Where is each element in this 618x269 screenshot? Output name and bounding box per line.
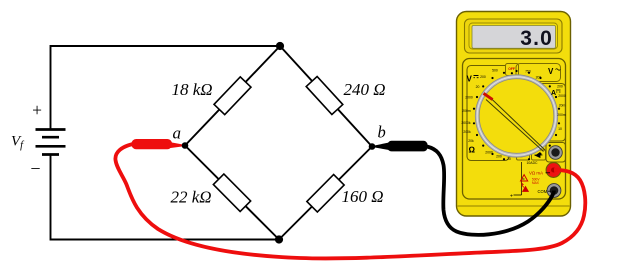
svg-text:2000k: 2000k <box>461 121 471 125</box>
case seam <box>458 205 570 207</box>
svg-text:b: b <box>378 123 386 142</box>
node top junction <box>276 42 284 50</box>
10A jack box <box>546 143 566 163</box>
svg-text:3.0: 3.0 <box>520 27 553 50</box>
svg-text:V: V <box>548 67 554 76</box>
svg-text:200m: 200m <box>557 113 566 117</box>
resistor 22 kOhm <box>213 174 250 211</box>
svg-text:200: 200 <box>496 155 502 159</box>
node b <box>369 143 376 150</box>
svg-text:200: 200 <box>557 85 563 89</box>
wire top: battery to top node <box>51 46 281 130</box>
red probe lead wire <box>115 144 585 258</box>
jack labels <box>510 162 551 200</box>
svg-text:2000: 2000 <box>465 96 473 100</box>
svg-text:2000: 2000 <box>558 94 566 98</box>
svg-text:200k: 200k <box>463 130 471 134</box>
svg-text:COM: COM <box>538 189 548 194</box>
display bezel <box>465 19 563 53</box>
red probe at node a <box>171 142 186 148</box>
black probe lead wire <box>427 147 554 235</box>
wire: top node to node b <box>280 46 372 147</box>
wire: node a to bottom node <box>185 146 279 240</box>
svg-text:20: 20 <box>507 157 511 161</box>
knob slot <box>486 96 545 152</box>
svg-text:160 Ω: 160 Ω <box>342 187 384 206</box>
svg-text:−: − <box>30 159 40 179</box>
svg-text:240 Ω: 240 Ω <box>344 80 386 99</box>
svg-text:200: 200 <box>480 75 486 79</box>
jack 10A <box>549 146 563 160</box>
svg-text:18 kΩ: 18 kΩ <box>172 80 213 99</box>
resistor 18 kOhm <box>214 77 251 115</box>
battery Vf <box>36 130 66 155</box>
svg-text:200: 200 <box>536 76 542 80</box>
resistor 240 Ohm <box>306 76 343 114</box>
svg-text:2000: 2000 <box>485 151 493 155</box>
multimeter body <box>457 12 571 217</box>
svg-text:Ω: Ω <box>469 144 476 154</box>
dial knob <box>477 77 556 156</box>
svg-text:VΩ mA: VΩ mA <box>529 171 543 176</box>
dial tick dots <box>473 70 560 160</box>
svg-text:500: 500 <box>492 69 498 73</box>
black probe at node b <box>372 143 389 151</box>
svg-text:20k: 20k <box>468 139 474 143</box>
jack V-ohm-mA (red) <box>546 163 561 178</box>
V dc sub panel <box>467 66 509 161</box>
resistor 160 Ohm <box>307 175 344 212</box>
V ac box <box>516 64 561 82</box>
svg-text:OFF: OFF <box>508 67 515 71</box>
svg-text:20m: 20m <box>559 104 566 108</box>
wire: node a to top node <box>185 46 280 146</box>
svg-text:750: 750 <box>525 70 531 74</box>
svg-text:200m: 200m <box>462 109 471 113</box>
knob red pointer <box>484 93 493 99</box>
diode box <box>532 150 546 160</box>
LCD display 3.0 <box>472 26 556 49</box>
node bottom junction <box>275 235 283 243</box>
svg-text:22 kΩ: 22 kΩ <box>171 188 212 207</box>
OFF box <box>506 64 519 76</box>
svg-text:A: A <box>551 90 556 97</box>
svg-text:20: 20 <box>476 85 480 89</box>
svg-text:V: V <box>467 75 473 84</box>
svg-text:+: + <box>510 194 513 200</box>
svg-text:+: + <box>32 100 42 120</box>
hFE box <box>517 151 530 161</box>
svg-text:a: a <box>173 124 182 143</box>
svg-text:MAX: MAX <box>532 181 540 185</box>
node a <box>182 142 189 149</box>
svg-text:10ADC: 10ADC <box>527 161 538 165</box>
lower panel <box>463 59 566 200</box>
jack COM <box>547 184 561 198</box>
wire: bottom node to node b <box>279 147 372 240</box>
wire bottom: battery to bottom node <box>51 155 280 240</box>
A box <box>538 84 566 142</box>
svg-text:10: 10 <box>558 127 562 131</box>
dial range micro-labels <box>461 69 566 166</box>
